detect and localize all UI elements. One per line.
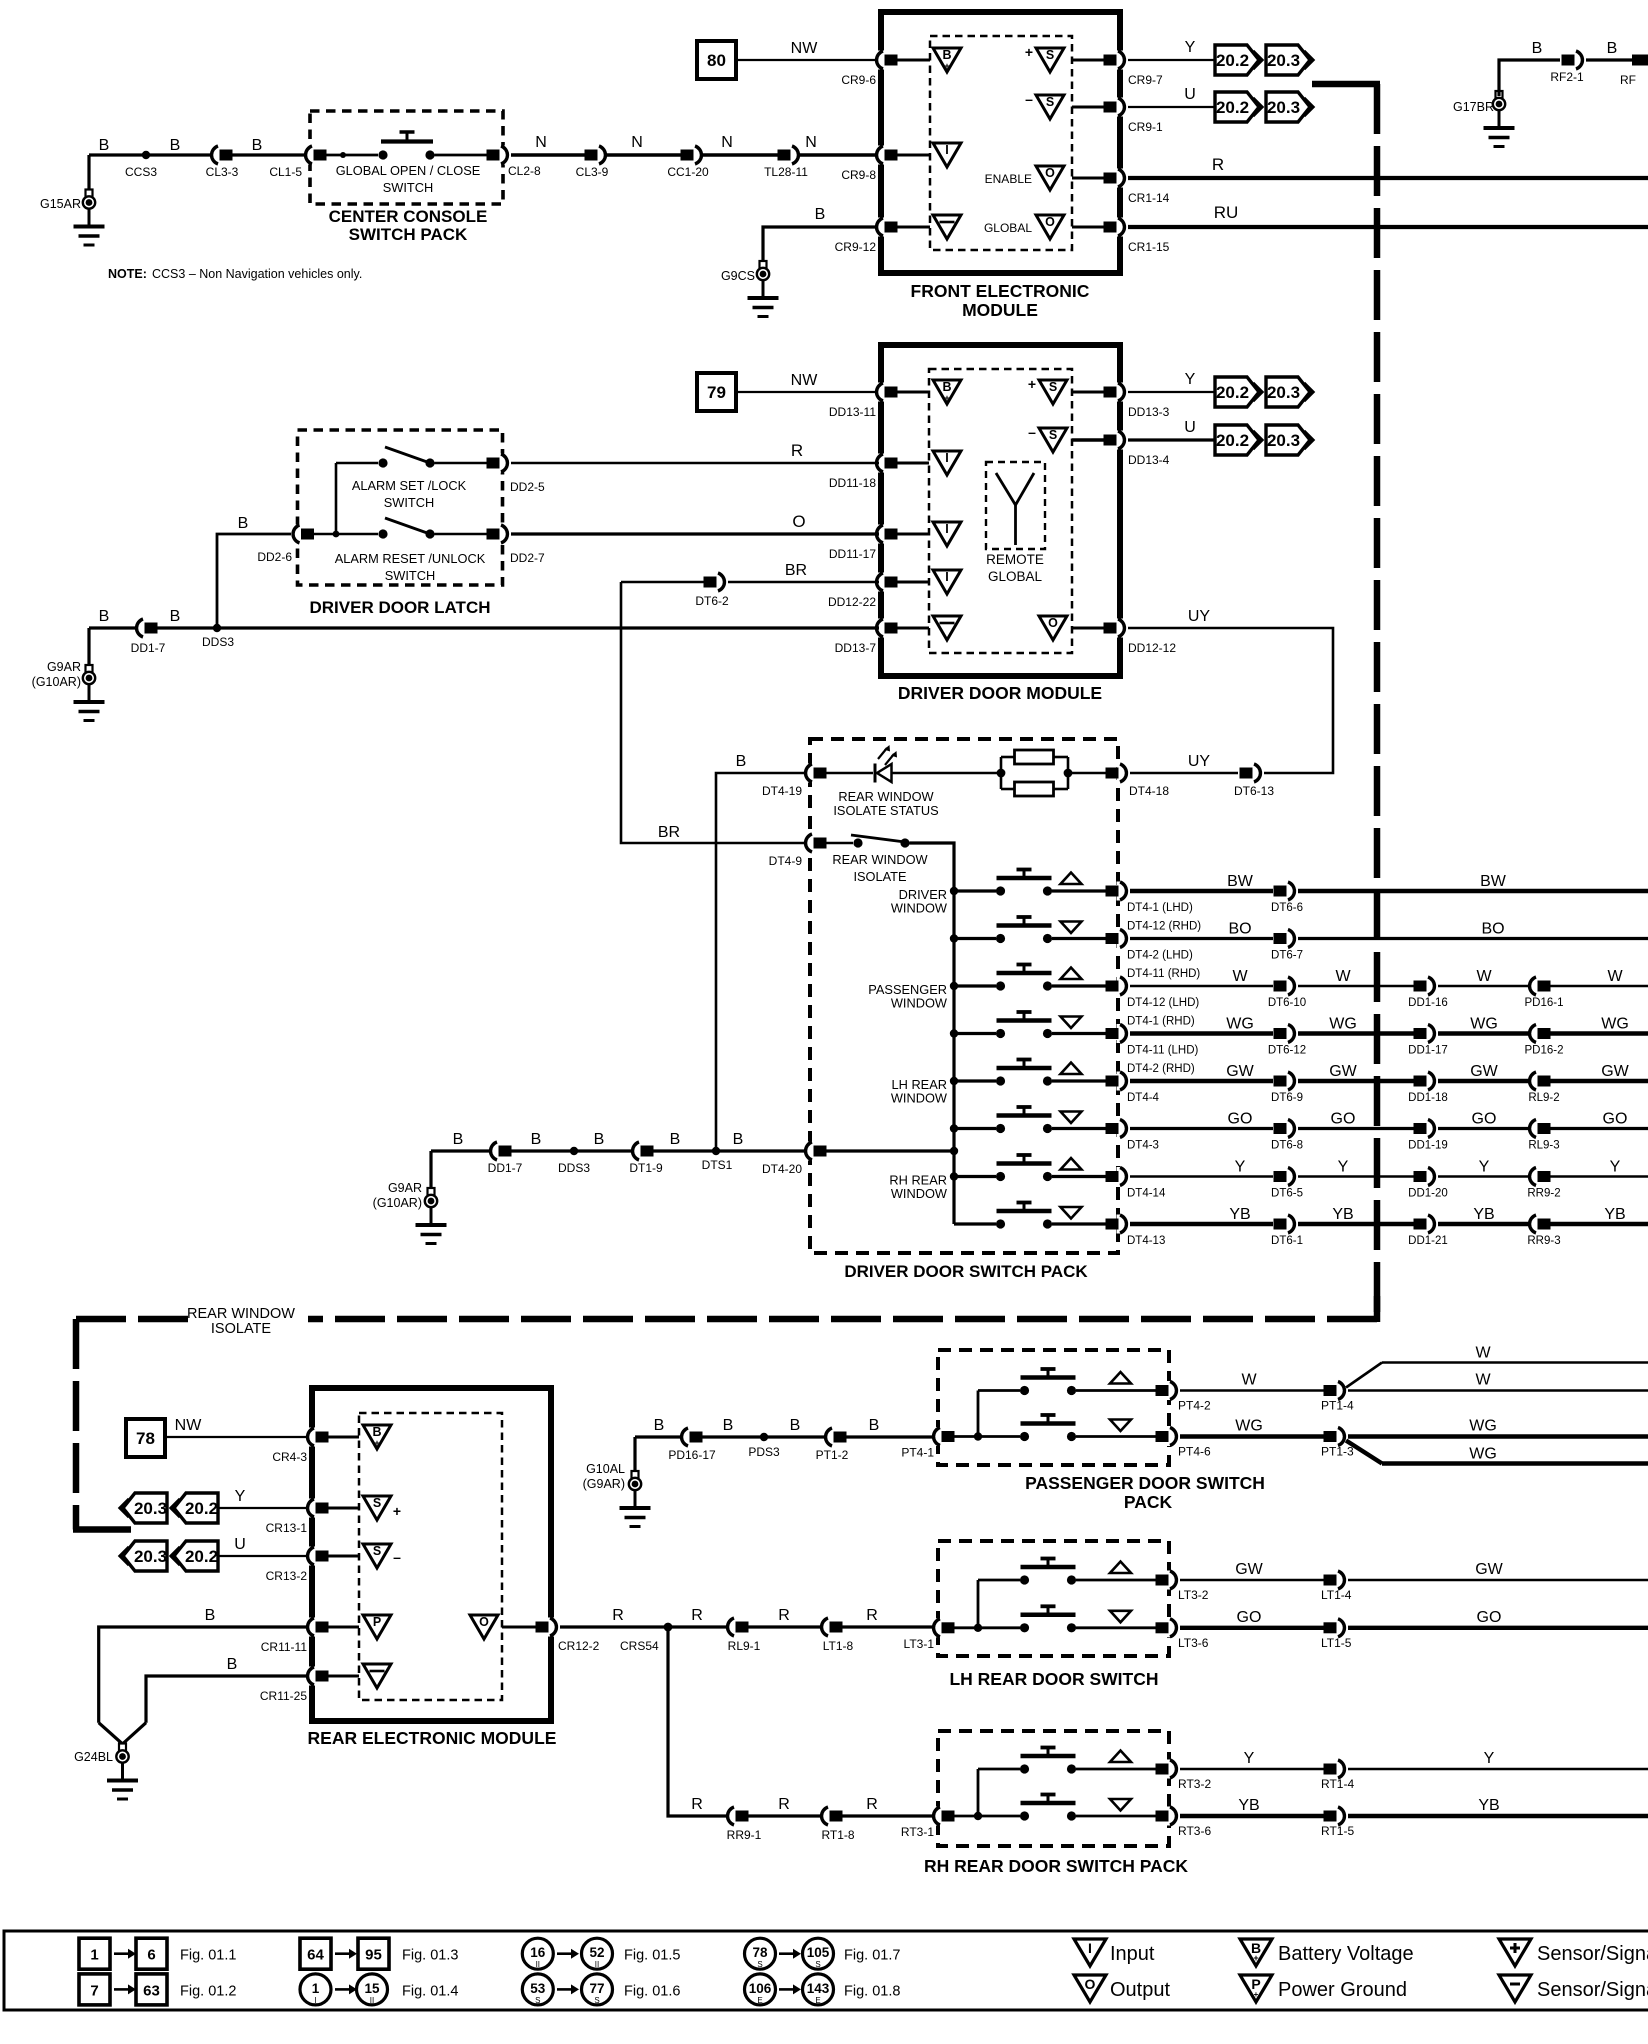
svg-text:BR: BR <box>785 562 807 579</box>
svg-text:DD1-7: DD1-7 <box>488 1161 523 1175</box>
legend fig 01.1 <box>79 1938 236 1969</box>
wire NW 80 to CR9-6 <box>736 40 879 60</box>
svg-text:WG: WG <box>1329 1016 1357 1033</box>
svg-text:I: I <box>945 143 948 157</box>
svg-text:YB: YB <box>1332 1206 1353 1223</box>
connector CL3-3 <box>206 146 239 180</box>
svg-text:Battery Voltage: Battery Voltage <box>1278 1943 1414 1965</box>
svg-text:GLOBAL OPEN / CLOSE: GLOBAL OPEN / CLOSE <box>336 163 481 178</box>
svg-text:PD16-17: PD16-17 <box>668 1448 716 1462</box>
svg-text:CR1-15: CR1-15 <box>1128 240 1170 254</box>
svg-text:UY: UY <box>1188 753 1211 770</box>
svg-text:B: B <box>205 1607 216 1624</box>
wire W to PT1-4 <box>1180 1372 1324 1391</box>
svg-text:R: R <box>691 1796 703 1813</box>
svg-text:CC1-20: CC1-20 <box>667 165 709 179</box>
wire B RF2-1 to edge <box>1586 40 1636 87</box>
wire GO to right edge <box>1348 1609 1648 1628</box>
connector CL2-8 <box>487 146 542 179</box>
svg-text:DD13-11: DD13-11 <box>829 405 876 419</box>
svg-text:PT1-3: PT1-3 <box>1321 1445 1354 1459</box>
svg-text:CR13-2: CR13-2 <box>266 1569 308 1583</box>
svg-text:80: 80 <box>707 51 726 70</box>
label PASSENGER WINDOW <box>868 982 948 1011</box>
label RH REAR WINDOW <box>889 1173 948 1202</box>
pin CR13-1 <box>266 1499 329 1536</box>
FEM stub CR9-6 <box>897 59 930 62</box>
svg-text:B: B <box>942 380 951 394</box>
connector DD1-18 <box>1408 1072 1448 1105</box>
svg-text:Fig. 01.6: Fig. 01.6 <box>624 1983 680 1999</box>
svg-text:S: S <box>815 1960 820 1969</box>
svg-text:20.3: 20.3 <box>1267 431 1300 450</box>
svg-text:DT6-5: DT6-5 <box>1271 1188 1303 1200</box>
pin DD13-11 <box>829 383 898 420</box>
wire Y CR9-7 to 20.2 <box>1128 39 1215 60</box>
svg-text:U: U <box>1184 419 1196 436</box>
label DRIVER DOOR MODULE <box>898 683 1102 703</box>
switch Y row <box>950 1155 1106 1181</box>
pin CR9-1 <box>1104 98 1164 135</box>
ground G24BL <box>74 1723 146 1799</box>
note text <box>108 267 362 281</box>
connector RR9-3 <box>1527 1215 1560 1248</box>
connector DD2-6 <box>257 525 314 565</box>
wire UY net to DD12-12 <box>1128 608 1333 773</box>
connector DT6-7 <box>1271 929 1303 962</box>
pennant 20.3 (Y REM) <box>120 1493 167 1523</box>
svg-text:79: 79 <box>707 383 726 402</box>
svg-text:DT6-1: DT6-1 <box>1271 1235 1303 1247</box>
svg-text:DT4-9: DT4-9 <box>769 854 803 868</box>
svg-text:DDS3: DDS3 <box>558 1161 590 1175</box>
FEM stub CR9-1 <box>1072 106 1104 109</box>
connector DD1-21 <box>1408 1215 1448 1248</box>
svg-text:R: R <box>791 441 803 460</box>
connector DT1-9 <box>629 1142 663 1176</box>
pin CR9-8 <box>841 146 897 183</box>
REM battery triangle B+ <box>363 1425 391 1449</box>
wire Y DT6 to DD1 <box>1298 1159 1414 1177</box>
wire W DT4 to DT6 <box>1130 968 1273 986</box>
switch WG row <box>950 1012 1106 1038</box>
legend output symbol <box>1074 1975 1170 2002</box>
svg-text:B: B <box>594 1131 605 1148</box>
svg-text:WINDOW: WINDOW <box>891 1186 948 1201</box>
pennant 20.2 (U REM) <box>171 1541 218 1571</box>
wire DT4-19 to LED <box>826 772 873 775</box>
svg-text:GLOBAL: GLOBAL <box>988 569 1043 584</box>
svg-text:PT1-2: PT1-2 <box>816 1448 849 1462</box>
svg-text:CR9-1: CR9-1 <box>1128 120 1163 134</box>
svg-text:PD16-2: PD16-2 <box>1525 1045 1564 1057</box>
svg-text:B: B <box>531 1131 542 1148</box>
DDM sensor- triangle S <box>1028 424 1067 452</box>
svg-text:20.3: 20.3 <box>1267 51 1300 70</box>
DDM stub DD13-3 <box>1072 391 1104 394</box>
svg-text:1: 1 <box>90 1947 98 1964</box>
svg-text:Y: Y <box>1235 1159 1246 1176</box>
svg-text:FRONT ELECTRONIC: FRONT ELECTRONIC <box>911 281 1090 301</box>
wire BR DT6-2 chain <box>621 581 704 584</box>
FEM stub CR1-14 <box>1072 177 1104 180</box>
switch YB row <box>954 1203 1106 1229</box>
svg-text:20.2: 20.2 <box>1216 51 1249 70</box>
connector RR9-2 <box>1527 1167 1560 1200</box>
legend fig 01.6 <box>522 1974 680 2005</box>
svg-text:+: + <box>374 1438 379 1448</box>
svg-text:B: B <box>170 137 181 154</box>
label RH REAR DOOR SWITCH PACK <box>924 1856 1188 1876</box>
wire WG DT6 to DD1 <box>1298 1016 1414 1034</box>
latch ALARM RESET/UNLOCK switch <box>313 518 491 583</box>
svg-text:B: B <box>723 1417 734 1434</box>
switch GO row <box>950 1107 1106 1133</box>
wire B CL3-3 to CL1-5 <box>232 137 313 155</box>
DDM stub DD11-18 <box>897 462 929 465</box>
edge connector square <box>1632 55 1648 66</box>
pin DT4 YB row <box>1106 1215 1166 1248</box>
svg-text:S: S <box>373 1496 381 1510</box>
svg-text:B: B <box>1607 40 1618 57</box>
svg-text:B: B <box>372 1425 381 1439</box>
svg-text:GO: GO <box>1331 1111 1356 1128</box>
svg-text:B: B <box>170 608 181 625</box>
wire YB RR9-3 to right edge <box>1550 1206 1648 1224</box>
pin CR12-2 <box>536 1618 600 1654</box>
wire BW DT4 to DT6 <box>1130 873 1273 891</box>
svg-text:RF2-1: RF2-1 <box>1550 70 1584 84</box>
rear window isolate dashed net left vertical <box>73 1319 131 1530</box>
pin CR9-7 <box>1104 51 1164 88</box>
svg-text:+: + <box>1253 1953 1258 1963</box>
DDM stub DD13-4 <box>1072 438 1104 442</box>
pin LT3-6 <box>1156 1618 1209 1650</box>
svg-text:95: 95 <box>365 1947 382 1964</box>
legend sensor+ symbol <box>1499 1939 1648 1966</box>
pennant 20.2 (U DDM) <box>1215 425 1262 455</box>
svg-text:DT1-9: DT1-9 <box>629 1161 663 1175</box>
svg-text:GO: GO <box>1228 1111 1253 1128</box>
pennant 20.2 (Y REM) <box>171 1493 218 1523</box>
DDM input triangle I (lock) <box>933 451 961 475</box>
pin DT4 W row <box>1106 977 1200 1028</box>
svg-text:DT6-6: DT6-6 <box>1271 902 1303 914</box>
svg-text:DD11-18: DD11-18 <box>829 476 876 490</box>
connector DT6-2 <box>695 573 729 609</box>
connector CC1-20 <box>667 146 709 180</box>
driver door latch box <box>298 430 503 585</box>
connector DD2-7 <box>487 525 546 566</box>
wire GO DT4 to DT6 <box>1130 1111 1273 1129</box>
svg-text:B: B <box>942 48 951 62</box>
svg-text:DD13-3: DD13-3 <box>1128 405 1170 419</box>
svg-text:DD1-21: DD1-21 <box>1408 1235 1448 1247</box>
svg-text:R: R <box>778 1607 790 1624</box>
svg-text:20.3: 20.3 <box>1267 98 1300 117</box>
FEM stub CR9-8 <box>897 154 930 157</box>
switch BW row <box>950 870 1106 896</box>
wire WG fork to right edge <box>1346 1418 1648 1464</box>
connector DT6-13 <box>1234 764 1274 799</box>
svg-text:Fig. 01.1: Fig. 01.1 <box>180 1948 236 1964</box>
svg-text:II: II <box>370 1996 374 2005</box>
svg-text:DRIVER DOOR MODULE: DRIVER DOOR MODULE <box>898 683 1102 703</box>
connector DT4-20 <box>762 1142 827 1177</box>
pennant 20.2 (Y FEM) <box>1215 45 1262 75</box>
svg-text:S: S <box>1049 428 1057 442</box>
svg-text:DT6-7: DT6-7 <box>1271 950 1303 962</box>
svg-text:WINDOW: WINDOW <box>891 1091 948 1106</box>
svg-text:DT4-11 (LHD): DT4-11 (LHD) <box>1127 1045 1199 1057</box>
svg-text:S: S <box>1049 380 1057 394</box>
svg-text:S: S <box>373 1544 381 1558</box>
svg-text:78: 78 <box>752 1945 768 1960</box>
connector DT6-12 <box>1268 1024 1306 1057</box>
svg-text:Output: Output <box>1110 1979 1170 2001</box>
wire R CRS54 to RT3-1 <box>668 1627 938 1816</box>
DDM ground triangle <box>933 616 961 640</box>
wire GW to right edge <box>1348 1561 1648 1580</box>
svg-text:WINDOW: WINDOW <box>891 901 948 916</box>
splice DTS1 <box>702 1147 733 1172</box>
passenger door switch pack box <box>938 1350 1169 1465</box>
svg-text:77: 77 <box>589 1981 604 1996</box>
REM sensor+ triangle S <box>363 1496 401 1520</box>
pennant 20.2 (Y DDM) <box>1215 377 1262 407</box>
FEM ground triangle <box>933 215 961 239</box>
svg-text:DD1-18: DD1-18 <box>1408 1092 1448 1104</box>
DDM stub DD11-17 <box>897 533 929 536</box>
svg-text:B: B <box>252 137 263 154</box>
svg-text:O: O <box>1045 215 1055 229</box>
wire Y DD13-3 to 20.2 <box>1128 371 1215 392</box>
svg-text:B: B <box>736 753 747 770</box>
svg-text:DD1-7: DD1-7 <box>131 641 166 655</box>
svg-text:DD2-6: DD2-6 <box>257 550 292 564</box>
DDM input triangle I (unlock) <box>933 522 961 546</box>
svg-text:RT1-4: RT1-4 <box>1321 1777 1354 1791</box>
splice CCS3 <box>125 151 157 179</box>
svg-text:20.2: 20.2 <box>185 1547 218 1566</box>
legend input symbol <box>1074 1939 1155 1966</box>
svg-text:20.3: 20.3 <box>134 1499 167 1518</box>
svg-text:Y: Y <box>1479 1159 1490 1176</box>
svg-text:GO: GO <box>1237 1609 1262 1626</box>
label PASSENGER DOOR SWITCH PACK <box>1025 1473 1265 1512</box>
svg-text:DT4-18: DT4-18 <box>1129 784 1169 798</box>
REM power ground triangle P <box>363 1615 391 1639</box>
label DRIVER DOOR LATCH <box>309 598 490 617</box>
svg-text:W: W <box>1475 1345 1491 1362</box>
pin CR1-14 <box>1104 169 1170 206</box>
svg-text:PASSENGER DOOR SWITCH: PASSENGER DOOR SWITCH <box>1025 1473 1265 1493</box>
svg-text:B: B <box>654 1417 665 1434</box>
svg-text:U: U <box>234 1536 246 1553</box>
svg-text:RL9-2: RL9-2 <box>1528 1092 1559 1104</box>
connector DT6-10 <box>1268 977 1306 1010</box>
switch W row <box>950 965 1106 991</box>
svg-text:DD1-19: DD1-19 <box>1408 1140 1448 1152</box>
svg-text:G9AR: G9AR <box>388 1181 422 1195</box>
svg-text:Sensor/Signal: Sensor/Signal <box>1537 1979 1648 2001</box>
svg-text:78: 78 <box>136 1429 155 1448</box>
REM stub output <box>502 1626 536 1629</box>
svg-text:YB: YB <box>1238 1797 1259 1814</box>
svg-text:SWITCH: SWITCH <box>383 180 433 195</box>
svg-text:DD1-16: DD1-16 <box>1408 997 1448 1009</box>
svg-text:BW: BW <box>1480 873 1507 890</box>
pin PT4-2 <box>1156 1381 1212 1413</box>
DDM sensor+ triangle S <box>1028 376 1067 404</box>
DDM stub DD12-12 <box>1072 627 1104 630</box>
svg-text:PDS3: PDS3 <box>748 1445 780 1459</box>
svg-text:I: I <box>945 570 948 584</box>
svg-text:R: R <box>1212 155 1224 174</box>
DDM stub DD12-22 <box>897 581 929 584</box>
svg-text:PT1-4: PT1-4 <box>1321 1399 1354 1413</box>
REM stub CR11-11 <box>328 1626 359 1629</box>
svg-text:106: 106 <box>749 1981 772 1996</box>
svg-text:G10AL: G10AL <box>586 1462 625 1476</box>
svg-text:CL3-3: CL3-3 <box>206 165 239 179</box>
page ref 78 box <box>126 1419 165 1457</box>
svg-text:RF: RF <box>1620 73 1636 87</box>
pin DT4-18 <box>1106 764 1170 799</box>
wire GO to LT1-5 <box>1180 1609 1324 1628</box>
FEM inner dashed box <box>930 36 1072 250</box>
svg-text:RR9-3: RR9-3 <box>1527 1235 1560 1247</box>
passenger door switch pack switches <box>955 1369 1157 1441</box>
svg-text:PD16-1: PD16-1 <box>1525 997 1564 1009</box>
RH rear door switch pack switches <box>955 1748 1157 1821</box>
svg-text:DT4-1 (LHD): DT4-1 (LHD) <box>1127 902 1193 914</box>
svg-text:B: B <box>99 608 110 625</box>
wire B G9AR to DD13-7 <box>89 608 879 628</box>
svg-text:20.2: 20.2 <box>1216 383 1249 402</box>
wire B DDS3 branch to DD2-6 <box>217 515 291 628</box>
DDM output triangle O <box>1039 616 1067 640</box>
svg-text:CENTER CONSOLE: CENTER CONSOLE <box>329 207 488 226</box>
svg-text:+: + <box>1254 1990 1259 1999</box>
svg-text:E: E <box>815 1996 820 2005</box>
legend fig 01.3 <box>300 1938 458 1969</box>
svg-text:U: U <box>1184 86 1196 103</box>
svg-text:B: B <box>869 1417 880 1434</box>
svg-text:+: + <box>944 61 949 71</box>
connector CL3-9 <box>576 146 609 180</box>
pin DD13-4 <box>1104 431 1170 468</box>
svg-text:GW: GW <box>1329 1063 1357 1080</box>
REM stub CR11-25 <box>328 1675 359 1678</box>
splice CRS54 <box>620 1623 672 1653</box>
svg-text:BO: BO <box>1481 921 1504 938</box>
svg-text:B: B <box>99 137 110 154</box>
svg-text:W: W <box>1475 1372 1491 1389</box>
wire YB to RT1-5 <box>1180 1797 1324 1816</box>
svg-text:GW: GW <box>1475 1561 1503 1578</box>
svg-text:GO: GO <box>1477 1609 1502 1626</box>
splice DDS3 lower <box>558 1147 590 1175</box>
REM inner dashed box <box>359 1413 502 1700</box>
svg-text:DT4-2 (RHD): DT4-2 (RHD) <box>1127 1063 1195 1075</box>
svg-text:YB: YB <box>1473 1206 1494 1223</box>
svg-text:REAR WINDOW: REAR WINDOW <box>832 852 928 867</box>
svg-text:GW: GW <box>1470 1063 1498 1080</box>
svg-text:RH REAR DOOR SWITCH PACK: RH REAR DOOR SWITCH PACK <box>924 1856 1188 1876</box>
svg-text:Power Ground: Power Ground <box>1278 1979 1407 2001</box>
legend fig 01.5 <box>522 1938 680 1969</box>
center console switch pack box <box>310 111 503 204</box>
svg-text:20.3: 20.3 <box>134 1547 167 1566</box>
label REAR ELECTRONIC MODULE <box>308 1728 557 1748</box>
wire Y DD1 to RR9-2 <box>1438 1159 1534 1177</box>
pin CR4-3 <box>272 1428 328 1465</box>
connector DD1-20 <box>1408 1167 1448 1200</box>
wire GO DD1 to RL9-3 <box>1438 1111 1534 1129</box>
svg-text:15: 15 <box>364 1981 380 1996</box>
svg-text:G9AR: G9AR <box>47 660 81 674</box>
switch BO row <box>950 917 1106 943</box>
legend fig 01.4 <box>300 1974 458 2005</box>
connector DT6-9 <box>1271 1072 1303 1105</box>
wire B chain to DT4-20 <box>431 1131 808 1151</box>
wire B G17BR to RF2-1 <box>1499 40 1560 96</box>
connector LT1-4 <box>1321 1571 1352 1603</box>
pin DT4 GW row <box>1106 1072 1160 1105</box>
connector DD2-5 <box>487 454 546 495</box>
svg-text:Y: Y <box>235 1488 246 1505</box>
REM ground triangle <box>363 1664 391 1688</box>
svg-text:20.2: 20.2 <box>1216 98 1249 117</box>
switch REAR WINDOW ISOLATE <box>826 835 929 884</box>
svg-text:R: R <box>778 1796 790 1813</box>
svg-text:LT3-6: LT3-6 <box>1178 1636 1209 1650</box>
svg-text:+: + <box>1028 376 1036 392</box>
svg-text:PT4-2: PT4-2 <box>1178 1399 1211 1413</box>
svg-text:Fig. 01.2: Fig. 01.2 <box>180 1983 236 1999</box>
svg-text:P: P <box>373 1615 381 1629</box>
connector RT1-4 <box>1321 1760 1354 1792</box>
wire GW RL9-2 to right edge <box>1550 1063 1648 1081</box>
wire Y to RT1-4 <box>1180 1750 1324 1769</box>
svg-text:REAR WINDOW: REAR WINDOW <box>187 1306 295 1322</box>
wire N CL2-8 to CR9-8 <box>511 134 879 155</box>
connector RT1-8 <box>821 1807 854 1843</box>
svg-text:DRIVER DOOR SWITCH PACK: DRIVER DOOR SWITCH PACK <box>844 1262 1088 1281</box>
svg-text:B: B <box>238 515 249 532</box>
legend bar frame <box>4 1931 1648 2010</box>
svg-text:I: I <box>314 1996 316 2005</box>
wire YB DT6 to DD1 <box>1298 1206 1414 1224</box>
DDM stub DD13-11 <box>897 391 929 394</box>
pin DT4 WG row <box>1106 1024 1199 1075</box>
svg-text:RT3-2: RT3-2 <box>1178 1777 1211 1791</box>
svg-text:Fig. 01.7: Fig. 01.7 <box>844 1948 900 1964</box>
switch GW row <box>950 1060 1106 1086</box>
svg-text:ISOLATE: ISOLATE <box>211 1321 271 1337</box>
svg-text:MODULE: MODULE <box>962 300 1038 320</box>
connector PT1-4 <box>1321 1381 1354 1413</box>
legend sensor- symbol <box>1499 1975 1648 2002</box>
svg-text:DD2-7: DD2-7 <box>510 551 545 565</box>
pin PT4-6 <box>1156 1427 1212 1459</box>
wire U DD13-4 to 20.2 <box>1128 419 1215 440</box>
svg-text:B: B <box>227 1656 238 1673</box>
svg-text:SWITCH PACK: SWITCH PACK <box>349 225 468 244</box>
FEM stub CR9-12 <box>897 226 930 229</box>
rear window isolate dashed net horizontal <box>76 1316 1377 1323</box>
